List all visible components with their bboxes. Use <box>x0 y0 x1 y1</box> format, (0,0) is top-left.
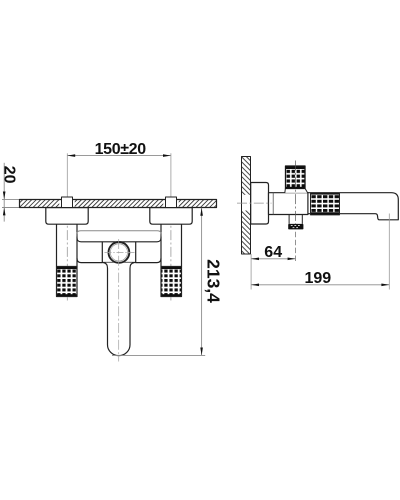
extension/centre line left valve <box>66 153 68 300</box>
wall plate (hatched) <box>20 200 217 208</box>
side vertical centreline (handle/outlet) <box>295 161 297 224</box>
body centre block <box>102 242 135 263</box>
knurled handle right <box>161 267 182 297</box>
svg-text:213,4: 213,4 <box>204 259 224 303</box>
extension/centre line right valve <box>170 153 172 300</box>
dim 64 dimension line <box>251 258 295 260</box>
body upper bar <box>77 231 162 237</box>
body lower arm edge right <box>136 258 161 262</box>
valve stem right <box>166 197 177 208</box>
dim 150±20 dimension line <box>67 155 171 157</box>
spout collar knurl <box>311 193 340 215</box>
outlet neck <box>289 215 302 224</box>
outlet nut <box>288 224 303 230</box>
dim 20 arrows <box>3 192 6 216</box>
dim 199 dimension line <box>251 284 389 286</box>
dim 199 arrows <box>251 284 389 287</box>
escutcheon left <box>46 208 88 225</box>
body lower arm edge left <box>77 258 102 262</box>
wall (hatched) <box>242 157 251 255</box>
dim 213,4 dimension line <box>112 208 205 356</box>
spout tube with fillets <box>104 263 135 356</box>
svg-text:20: 20 <box>1 166 18 184</box>
dim 64 arrows <box>251 258 295 261</box>
dim 213,4 arrows <box>200 208 203 356</box>
body contour line <box>272 193 274 215</box>
svg-text:199: 199 <box>304 270 331 287</box>
svg-text:64: 64 <box>264 244 282 261</box>
spout tip extension line <box>388 214 390 290</box>
body bar bottom edges <box>77 238 161 242</box>
side handle knurl <box>286 166 306 189</box>
dim 150±20 arrows <box>67 154 171 157</box>
valve stem left <box>62 197 73 208</box>
side escutcheon <box>251 183 269 225</box>
circle centrelines <box>105 239 135 362</box>
dim 20 dimension line <box>2 163 20 222</box>
diverter inner ring <box>110 244 127 261</box>
wall face extension line <box>250 254 252 290</box>
handle base trapezoid <box>285 188 308 193</box>
escutcheon right <box>150 208 192 225</box>
valve tube right <box>161 224 182 266</box>
knurled handle left <box>57 267 78 297</box>
valve tube left <box>57 224 78 266</box>
svg-text:150±20: 150±20 <box>95 141 147 158</box>
side body block <box>269 193 308 215</box>
side horizontal centreline <box>237 202 272 204</box>
side spout <box>308 193 398 220</box>
diverter circle <box>109 242 130 263</box>
